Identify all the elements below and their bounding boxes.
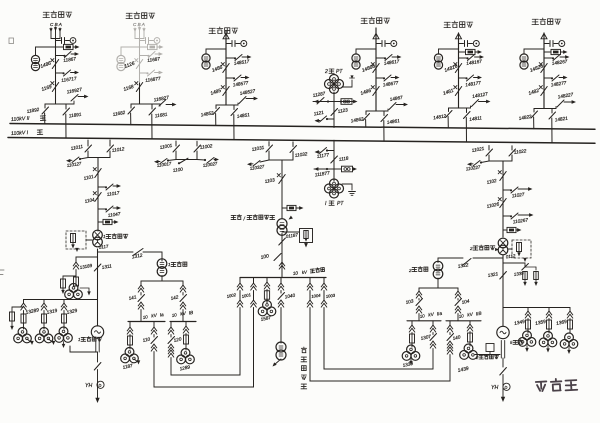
svg-text:11021: 11021 bbox=[471, 146, 485, 153]
wave trap bbox=[544, 51, 551, 53]
wire 3-phase stubs bbox=[50, 28, 52, 39]
wave trap unit2 bbox=[503, 229, 507, 231]
feeder 1319 bbox=[43, 300, 45, 304]
svg-text:142: 142 bbox=[170, 294, 179, 301]
svg-text:1169: 1169 bbox=[41, 84, 53, 93]
disconnector 11031 bbox=[268, 142, 270, 146]
coupling capacitor bbox=[544, 43, 549, 45]
busduct unit2 bbox=[500, 341, 502, 359]
coupling capacitor bay1 bbox=[56, 40, 61, 42]
svg-text:10: 10 bbox=[293, 270, 299, 276]
wire aux bar unit2 bbox=[437, 278, 439, 288]
motor 1339 bbox=[407, 345, 416, 354]
svg-text:10: 10 bbox=[171, 312, 177, 318]
svg-text:2: 2 bbox=[324, 69, 328, 75]
wave trap bay2 bbox=[140, 46, 148, 48]
disconnector 11027 branch bbox=[503, 189, 511, 191]
disconnector to bus II bbox=[365, 111, 367, 115]
wire generator branch unit2 bbox=[503, 307, 570, 309]
disconnector 11681 bbox=[151, 104, 153, 109]
transformer startup-standby bbox=[277, 219, 287, 229]
disconnector to bus II bbox=[448, 108, 450, 112]
svg-text:0117: 0117 bbox=[98, 244, 109, 250]
wire aux bar unit1 bbox=[161, 276, 163, 282]
svg-text:1102: 1102 bbox=[486, 178, 497, 185]
line trap triangle bbox=[223, 33, 229, 38]
wire split bar bbox=[216, 104, 238, 106]
wire main bbox=[225, 31, 227, 105]
wire unit2 bar bbox=[489, 160, 512, 162]
svg-text:14816: 14816 bbox=[444, 63, 459, 73]
svg-text:11017: 11017 bbox=[106, 190, 120, 197]
CT bbox=[206, 49, 226, 54]
svg-text:13289: 13289 bbox=[25, 307, 40, 316]
svg-text:1486: 1486 bbox=[211, 64, 224, 73]
feeder 1002 bbox=[239, 278, 241, 284]
line title Qi-2 bbox=[126, 13, 133, 18]
wire excitation split bbox=[63, 275, 76, 277]
disconnector 110267 branch bbox=[503, 215, 511, 217]
wire split bar bbox=[449, 107, 471, 109]
disconnector line side bbox=[470, 106, 472, 108]
bus 10kV Ia bbox=[128, 321, 165, 323]
PT cluster upper bbox=[330, 75, 339, 84]
svg-text:1349: 1349 bbox=[514, 319, 526, 327]
svg-text:14861: 14861 bbox=[386, 118, 400, 125]
coupling capacitor bay2 bbox=[140, 40, 145, 42]
disconnector 116877 bay2 (pencil) bbox=[140, 72, 148, 74]
svg-text:1118: 1118 bbox=[338, 156, 349, 162]
disconnector 11001-7 earth bbox=[168, 160, 176, 161]
svg-text:1104: 1104 bbox=[84, 197, 95, 204]
svg-text:10: 10 bbox=[458, 313, 464, 319]
disconnector 11021 bbox=[488, 146, 490, 151]
ground 1349 bbox=[526, 346, 528, 350]
feeder 103 bbox=[418, 288, 420, 291]
svg-text:110267: 110267 bbox=[512, 217, 528, 224]
disconnector 11001 bbox=[175, 141, 177, 146]
disconnector line side bbox=[237, 103, 239, 105]
svg-text:11891: 11891 bbox=[68, 112, 82, 119]
breaker 1486 bay1 bbox=[52, 60, 58, 69]
svg-text:100: 100 bbox=[260, 253, 270, 261]
fuse feeder 1289 bbox=[185, 322, 187, 327]
svg-text:110: 110 bbox=[142, 336, 151, 343]
svg-text:5: 5 bbox=[510, 340, 513, 345]
CT bay2 bbox=[121, 47, 140, 55]
svg-text:148677: 148677 bbox=[382, 80, 399, 87]
wire 3-phase stubs bay2 bbox=[134, 28, 136, 39]
feeder 1349 bbox=[527, 308, 529, 312]
svg-text:1002: 1002 bbox=[226, 292, 237, 299]
svg-text:1321: 1321 bbox=[487, 271, 499, 278]
svg-text:110kV II: 110kV II bbox=[11, 116, 31, 123]
disconnector 110227 earth bbox=[481, 161, 489, 163]
motor 1359 bbox=[544, 332, 553, 341]
line title Qi-1 bbox=[43, 12, 50, 17]
svg-text:Ia: Ia bbox=[159, 312, 164, 318]
label startup/standby transformer bbox=[231, 215, 236, 219]
svg-text:148167: 148167 bbox=[466, 59, 483, 66]
wire bay2 split bar bbox=[131, 103, 160, 105]
svg-text:14821: 14821 bbox=[554, 116, 568, 123]
disconnector 1123 bbox=[331, 109, 338, 116]
svg-text:1486: 1486 bbox=[40, 60, 53, 69]
svg-text:116827: 116827 bbox=[153, 95, 169, 103]
svg-text:1003: 1003 bbox=[325, 293, 336, 299]
svg-text:1481: 1481 bbox=[442, 88, 454, 97]
svg-text:116927: 116927 bbox=[66, 87, 82, 95]
svg-text:1: 1 bbox=[168, 262, 171, 267]
wire unit1 main upper bbox=[97, 158, 99, 232]
feeder 1001 bbox=[253, 278, 255, 284]
wire unit1 bar bbox=[88, 157, 110, 159]
svg-text:110kV I: 110kV I bbox=[11, 130, 29, 137]
wave trap bbox=[459, 51, 466, 53]
coupling capacitor bbox=[376, 43, 381, 45]
label 1312 wire corner bbox=[161, 252, 163, 261]
feeder 120 bbox=[170, 322, 172, 328]
svg-text:14867: 14867 bbox=[389, 95, 403, 102]
feeder 110 bbox=[153, 322, 155, 328]
svg-text:IIB: IIB bbox=[475, 311, 481, 317]
bus 10kV standby bbox=[240, 277, 326, 279]
disconnector line upper bbox=[226, 57, 235, 59]
disconnector 116927 line side bbox=[73, 101, 75, 104]
neutral arrester 01127 unit2 bbox=[512, 240, 531, 258]
PT cluster I bbox=[330, 179, 339, 188]
svg-text:1319: 1319 bbox=[46, 308, 58, 316]
svg-text:148527: 148527 bbox=[239, 88, 256, 96]
svg-text:110027: 110027 bbox=[202, 161, 218, 168]
disconnector line upper bbox=[376, 57, 385, 59]
svg-text:116877: 116877 bbox=[145, 76, 161, 83]
transformer main unit1 bbox=[93, 230, 103, 240]
svg-text:14822: 14822 bbox=[518, 114, 532, 121]
wire main bbox=[458, 33, 460, 108]
feeder 142 bbox=[182, 281, 184, 285]
disconnector 11032 bbox=[292, 142, 294, 147]
svg-text:2: 2 bbox=[475, 355, 479, 360]
fuse feeder 1439 bbox=[469, 321, 471, 324]
disconnector 11012 bbox=[109, 140, 111, 146]
disconnector line lower bbox=[544, 77, 552, 79]
margin mark top-left bbox=[9, 38, 14, 44]
ground excitation unit1 bbox=[80, 288, 89, 293]
wire unit1 main lower bbox=[97, 249, 99, 326]
breaker 1101 bbox=[95, 169, 101, 178]
motor 1289 bbox=[181, 349, 190, 358]
disconnector line upper bbox=[459, 57, 468, 59]
disconnector main lower bbox=[223, 87, 229, 96]
svg-text:1101: 1101 bbox=[83, 174, 94, 181]
feeder 1004 bbox=[309, 278, 311, 284]
load arrow unit1 bbox=[95, 398, 99, 403]
svg-text:11682: 11682 bbox=[112, 110, 126, 117]
svg-text:11012: 11012 bbox=[111, 146, 125, 153]
svg-text:11011: 11011 bbox=[70, 144, 83, 151]
svg-text:148277: 148277 bbox=[550, 80, 567, 87]
svg-text:1439: 1439 bbox=[457, 366, 469, 374]
transformer aux unit2 (2 chang gao bian) bbox=[437, 258, 439, 263]
breaker upper bbox=[223, 64, 229, 73]
svg-text:/: / bbox=[243, 217, 246, 223]
signature Gao Gao Qiang bbox=[536, 378, 578, 392]
wire tie 1004 to 140 bbox=[310, 310, 450, 381]
bus 10kV Ib bbox=[170, 321, 196, 323]
wire split bar bbox=[534, 108, 556, 110]
svg-text:104: 104 bbox=[461, 298, 470, 305]
svg-text:1: 1 bbox=[78, 337, 81, 342]
svg-text:11026: 11026 bbox=[486, 201, 500, 209]
disconnector 110127 earth bbox=[80, 158, 88, 160]
line trap triangle bbox=[373, 33, 379, 38]
svg-text:1168: 1168 bbox=[123, 84, 135, 93]
label plant standby transformer bbox=[301, 347, 306, 353]
svg-text:11867: 11867 bbox=[63, 56, 77, 63]
disconnector main lower bbox=[455, 87, 461, 96]
bus 10kV IIa bbox=[407, 320, 441, 322]
wire split bar bbox=[366, 110, 388, 112]
wire unit2 main lower bbox=[502, 255, 504, 326]
svg-text:11001: 11001 bbox=[159, 143, 173, 150]
svg-text:116717: 116717 bbox=[61, 76, 77, 83]
contact below 100 bbox=[279, 262, 285, 269]
disconnector 111877 branch bbox=[314, 168, 334, 170]
svg-text:1322: 1322 bbox=[457, 262, 469, 270]
svg-text:1004: 1004 bbox=[311, 293, 322, 299]
svg-text:kV: kV bbox=[302, 269, 309, 275]
CT bbox=[356, 49, 376, 54]
svg-text:kV: kV bbox=[151, 313, 158, 319]
svg-text:103: 103 bbox=[405, 298, 414, 305]
svg-text:1289: 1289 bbox=[179, 364, 191, 371]
breaker upper bbox=[541, 64, 547, 73]
disconnector 1311 bbox=[94, 264, 101, 271]
svg-text:1312: 1312 bbox=[131, 253, 143, 261]
svg-text:kV: kV bbox=[467, 312, 474, 318]
disconnector 11011 bbox=[87, 140, 89, 146]
arrester 01187 bbox=[281, 234, 283, 278]
svg-text:11032: 11032 bbox=[294, 151, 308, 158]
fuse feeder 1587 bbox=[266, 278, 268, 283]
wire tie 1002 to 120 bbox=[171, 310, 240, 375]
wire bay2 main upper (pencil) bbox=[139, 39, 141, 84]
breaker 1100 bbox=[179, 158, 188, 163]
svg-text:110127: 110127 bbox=[66, 161, 82, 168]
disconnector to bus I bbox=[466, 108, 468, 113]
wire bay1 main bbox=[55, 39, 57, 105]
ground 1187 bbox=[134, 359, 138, 362]
svg-text:11287: 11287 bbox=[312, 91, 326, 98]
disconnector 11682 bbox=[130, 104, 132, 108]
CT bbox=[439, 49, 459, 54]
disconnector 116827 line side bbox=[159, 104, 161, 106]
wire tie 1003 to 1307 bbox=[324, 310, 433, 369]
CT bay1 bbox=[36, 47, 56, 55]
feeder 1369 bbox=[569, 308, 571, 312]
disconnector line side bbox=[387, 109, 389, 111]
disconnector line lower bbox=[376, 77, 384, 79]
svg-text:2: 2 bbox=[408, 268, 412, 273]
disconnector to bus I bbox=[551, 109, 553, 114]
wave trap branch 1103 bbox=[282, 207, 287, 209]
svg-text:1121: 1121 bbox=[313, 110, 324, 117]
disconnector 110327 earth bbox=[260, 160, 269, 162]
breaker 100 bbox=[274, 254, 281, 261]
line title bbox=[209, 28, 216, 33]
ground PT-I bbox=[349, 192, 356, 196]
svg-text:111877: 111877 bbox=[314, 170, 330, 177]
feeder 1040 bbox=[280, 278, 282, 284]
svg-text:1001: 1001 bbox=[241, 292, 251, 299]
svg-text:1: 1 bbox=[103, 234, 106, 239]
wire excitation link unit2 bbox=[475, 354, 500, 356]
svg-text:1369: 1369 bbox=[556, 319, 568, 327]
svg-text:kV: kV bbox=[180, 311, 187, 317]
svg-text:110327: 110327 bbox=[249, 164, 265, 171]
feeder 13289 bbox=[23, 300, 25, 304]
disconnector 11287 branch bbox=[313, 101, 356, 103]
generator G1 bbox=[91, 326, 103, 338]
wave trap unit1 bbox=[98, 221, 103, 223]
svg-text:10: 10 bbox=[142, 314, 148, 320]
wire main bbox=[375, 28, 377, 111]
ground 1369 bbox=[568, 348, 570, 352]
svg-text:1040: 1040 bbox=[284, 293, 296, 300]
line title bbox=[361, 18, 368, 23]
svg-text:1123: 1123 bbox=[337, 107, 348, 114]
wire coupler bar bbox=[176, 159, 197, 161]
wire unit2 main upper bbox=[502, 161, 504, 237]
svg-text:1587: 1587 bbox=[260, 315, 272, 322]
svg-text:2: 2 bbox=[469, 246, 473, 251]
feeder 1307 bbox=[432, 321, 434, 325]
svg-text:kV: kV bbox=[428, 312, 435, 318]
ground 1339 motor bbox=[410, 359, 412, 362]
disconnector 11002 bbox=[196, 141, 198, 146]
fuse feeder 1339 motor bbox=[411, 321, 413, 325]
CT bbox=[524, 49, 544, 54]
disconnector 11687 bay2 (pencil) bbox=[140, 55, 149, 57]
svg-text:141: 141 bbox=[128, 294, 137, 301]
line trap triangle bbox=[456, 33, 462, 38]
svg-text:0112: 0112 bbox=[505, 253, 516, 259]
coupling capacitor bbox=[226, 43, 231, 45]
feeder 140 bbox=[449, 321, 451, 325]
svg-text:14851: 14851 bbox=[236, 112, 250, 119]
bus 110kV I bbox=[8, 138, 595, 144]
wire PT-I earth link bbox=[342, 184, 352, 190]
svg-text:YH: YH bbox=[491, 385, 498, 391]
disconnector 11892 bbox=[44, 104, 46, 108]
svg-text:I: I bbox=[325, 201, 327, 207]
ground 1329 bbox=[63, 342, 65, 346]
margin tick left edge bbox=[0, 270, 4, 275]
svg-text:14811: 14811 bbox=[469, 115, 483, 122]
transformer aux unit1 (1 chang gao bian) bbox=[157, 259, 167, 269]
transformer aux standby bbox=[276, 342, 286, 352]
wire 1103 bar bbox=[269, 159, 293, 161]
wire PT-I drop bbox=[333, 140, 335, 181]
wire tie 1001 to 110 bbox=[154, 310, 254, 387]
breaker 1126 bay2 (pencil) bbox=[136, 60, 142, 69]
svg-text:01187: 01187 bbox=[285, 232, 298, 239]
disconnector 01187 sw bbox=[279, 238, 286, 245]
svg-text:14812: 14812 bbox=[433, 113, 447, 120]
disconnector YHD unit2 bbox=[502, 358, 504, 367]
svg-text:1359: 1359 bbox=[535, 319, 547, 327]
disconnector line upper bbox=[544, 57, 553, 59]
svg-text:10: 10 bbox=[419, 313, 425, 319]
svg-text:PT: PT bbox=[337, 201, 344, 207]
svg-text:11002: 11002 bbox=[199, 143, 213, 150]
svg-text:1485: 1485 bbox=[210, 88, 222, 97]
feeder 1329 bbox=[63, 300, 65, 304]
svg-text:14826: 14826 bbox=[529, 63, 544, 73]
svg-text:148617: 148617 bbox=[383, 59, 400, 66]
disconnector 1104 bbox=[95, 193, 101, 202]
svg-text:1187: 1187 bbox=[122, 363, 133, 370]
disconnector 14867 bay1 bbox=[56, 55, 65, 57]
svg-text:14866: 14866 bbox=[361, 63, 376, 73]
disconnector 1118 bbox=[331, 156, 338, 163]
svg-text:110017: 110017 bbox=[156, 161, 172, 168]
motor 1187 bbox=[125, 348, 134, 357]
fuse feeder 1187 bbox=[129, 322, 131, 328]
svg-text:YH: YH bbox=[85, 383, 92, 389]
wire bay1 split bar bbox=[45, 103, 74, 105]
disconnector 11891 bbox=[65, 104, 67, 109]
wire main bbox=[543, 33, 545, 109]
svg-text:11687: 11687 bbox=[147, 56, 161, 63]
feeder 1003 bbox=[323, 278, 325, 284]
feeder 1359 bbox=[548, 308, 550, 312]
ground 1319 bbox=[49, 339, 54, 343]
disconnector 116717 bay1 bbox=[56, 72, 64, 74]
disconnector 1121 branch bbox=[327, 118, 334, 120]
svg-text:IB: IB bbox=[188, 310, 193, 316]
svg-text:1103: 1103 bbox=[264, 177, 275, 184]
fuse arrester left bbox=[62, 276, 64, 279]
branch 1312 to aux transformer bbox=[98, 251, 134, 253]
breaker 1321 bbox=[500, 272, 507, 280]
disconnector line lower bbox=[226, 77, 234, 79]
transformer main unit2 bbox=[498, 238, 508, 248]
busduct unit1 bbox=[95, 340, 97, 352]
svg-text:D: D bbox=[504, 385, 507, 390]
disconnector 1169 bay1 bbox=[52, 83, 58, 92]
wire 1103 drop bbox=[281, 160, 283, 219]
wave trap bay1 bbox=[56, 46, 64, 48]
svg-text:11027: 11027 bbox=[511, 192, 525, 199]
ground aux standby transformer bbox=[274, 359, 281, 365]
svg-text:148267: 148267 bbox=[551, 59, 568, 66]
disconnector to bus I bbox=[233, 105, 235, 110]
wire excitation link unit1 bbox=[70, 346, 98, 352]
breaker upper bbox=[455, 64, 461, 73]
motor 1329 bbox=[59, 327, 68, 336]
svg-text:C B A: C B A bbox=[50, 22, 62, 27]
svg-text:1486: 1486 bbox=[360, 88, 372, 97]
svg-text:14862: 14862 bbox=[350, 116, 364, 123]
line trap triangle bbox=[541, 33, 547, 38]
svg-text:1311: 1311 bbox=[101, 263, 112, 270]
disconnector to bus II bbox=[215, 105, 217, 109]
disconnector to bus I bbox=[383, 111, 385, 116]
bus 110kV II bbox=[10, 124, 595, 130]
disconnector 1168 bay2 lower bbox=[139, 83, 141, 104]
